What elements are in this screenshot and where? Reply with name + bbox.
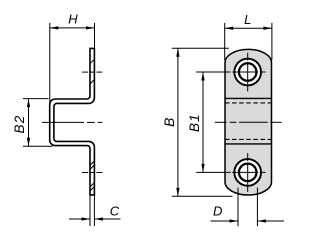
svg-text:L: L <box>244 12 251 27</box>
svg-text:H: H <box>68 12 78 27</box>
svg-text:B: B <box>162 118 177 127</box>
svg-text:B2: B2 <box>12 115 27 134</box>
svg-text:C: C <box>110 204 120 219</box>
svg-text:D: D <box>213 204 222 219</box>
svg-text:B1: B1 <box>187 113 202 132</box>
